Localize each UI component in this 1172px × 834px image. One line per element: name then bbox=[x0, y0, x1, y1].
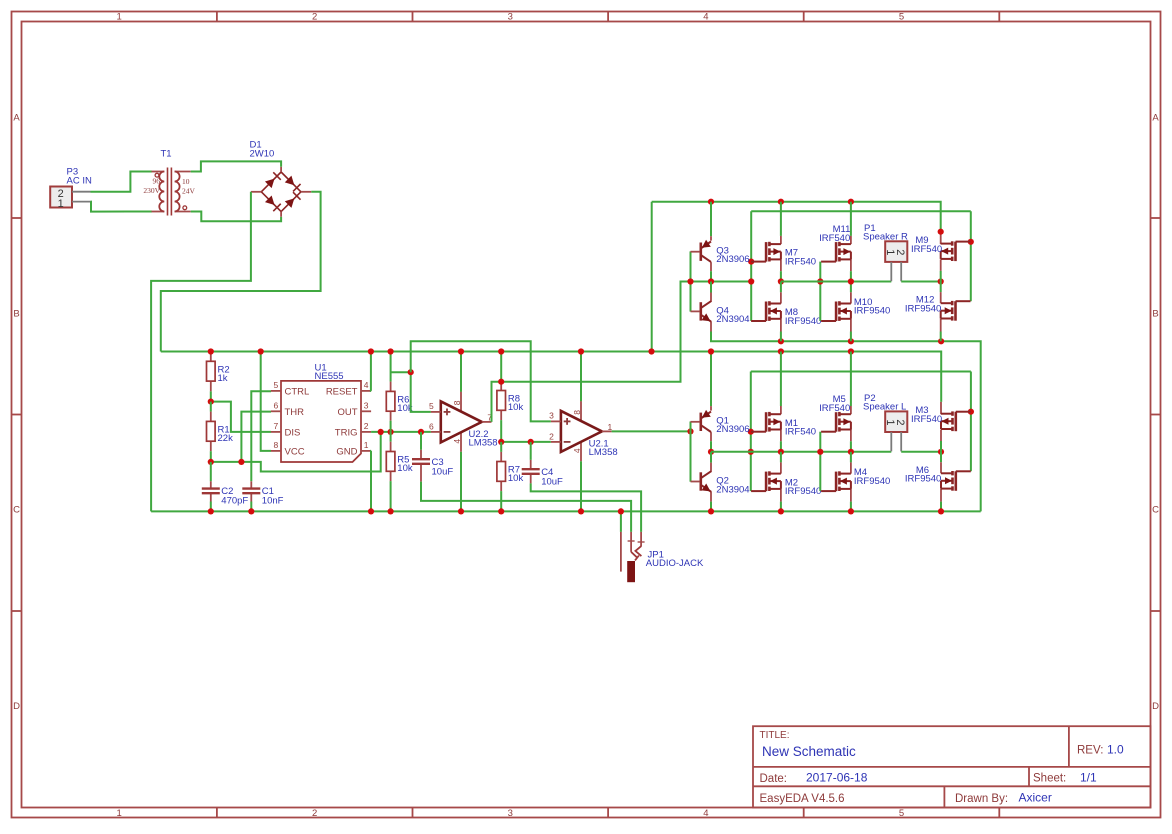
junction Q1 collector bbox=[708, 449, 714, 455]
svg-text:2: 2 bbox=[312, 12, 317, 23]
capacitor C2 bbox=[202, 486, 249, 507]
svg-text:B: B bbox=[1152, 309, 1158, 320]
junction Q1 feed on V+ rail bbox=[708, 348, 714, 354]
svg-text:LM358: LM358 bbox=[469, 438, 498, 449]
transistor M4 wires bbox=[850, 452, 852, 463]
svg-text:Date:: Date: bbox=[760, 773, 788, 785]
wire Q3/Q4 base tie bbox=[690, 251, 692, 311]
svg-text:3: 3 bbox=[508, 12, 513, 23]
wire Q1/Q2 base tie bbox=[690, 422, 692, 482]
svg-text:5: 5 bbox=[899, 808, 904, 819]
junction C4 top bbox=[528, 439, 534, 445]
junction Q2 emitter ground bbox=[708, 508, 714, 514]
svg-text:A: A bbox=[13, 113, 20, 124]
transistor M9 wires bbox=[940, 232, 942, 244]
svg-text:THR: THR bbox=[285, 407, 305, 418]
junction TRIG wire bbox=[378, 429, 384, 435]
transistor M11 wires bbox=[850, 202, 852, 236]
connector P3 (AC IN) bbox=[50, 167, 92, 211]
junction M3 gate bbox=[968, 409, 974, 415]
svg-text:IRF9540: IRF9540 bbox=[905, 304, 941, 315]
wire ground to JP1 sleeve bbox=[620, 511, 622, 532]
capacitor C2 pins bbox=[210, 462, 212, 481]
junction VCC on V+ rail bbox=[258, 348, 264, 354]
junction R1 bottom bbox=[208, 459, 214, 465]
svg-text:2017-06-18: 2017-06-18 bbox=[806, 771, 868, 785]
wire U2.1 out to Q1/Q2 bases bbox=[612, 430, 691, 432]
svg-text:2W10: 2W10 bbox=[250, 149, 275, 160]
svg-text:24V: 24V bbox=[182, 186, 196, 195]
svg-text:1: 1 bbox=[117, 12, 122, 23]
svg-text:REV:: REV: bbox=[1077, 744, 1103, 756]
svg-text:8: 8 bbox=[452, 400, 462, 405]
junction M7 source bbox=[778, 278, 784, 284]
junction M5 source bbox=[848, 449, 854, 455]
junctions M1/M5 drains on V+ rail bbox=[778, 348, 784, 354]
junction Q3/Q4 bases bbox=[687, 278, 693, 284]
svg-text:GND: GND bbox=[336, 446, 357, 457]
transistor M7 wires bbox=[780, 202, 782, 236]
op-amp U2.2 power wires bbox=[460, 352, 462, 392]
wire D1 negative to ground rail bbox=[151, 192, 251, 512]
svg-text:4: 4 bbox=[703, 12, 708, 23]
transistor Q1 collector wire bbox=[710, 432, 712, 441]
junction M9 source node bbox=[938, 278, 944, 284]
svg-text:2: 2 bbox=[894, 249, 906, 255]
junction C1 ground bbox=[248, 508, 254, 514]
lower gate bus bbox=[751, 371, 971, 373]
junction M3 source node bbox=[938, 449, 944, 455]
junction U2.2 V- bbox=[458, 508, 464, 514]
svg-text:IRF540: IRF540 bbox=[819, 403, 850, 414]
svg-text:IRF540: IRF540 bbox=[785, 257, 816, 268]
svg-text:7: 7 bbox=[274, 421, 279, 431]
svg-text:OUT: OUT bbox=[337, 407, 357, 418]
svg-text:22k: 22k bbox=[218, 433, 234, 444]
svg-text:D: D bbox=[1152, 701, 1159, 712]
svg-text:IRF540: IRF540 bbox=[785, 427, 816, 438]
svg-text:2N3906: 2N3906 bbox=[716, 254, 749, 265]
wire R2/R1 node to U1 DIS bbox=[211, 402, 271, 432]
svg-text:1k: 1k bbox=[218, 373, 228, 384]
connector JP1 (AUDIO-JACK) bbox=[621, 532, 704, 582]
wire R1 bottom to TRIG node bbox=[211, 432, 381, 472]
capacitor C1 bbox=[242, 486, 283, 507]
svg-text:8: 8 bbox=[274, 440, 279, 450]
transistor Q4 (2N3904) bbox=[691, 301, 750, 325]
op-amp U2.2 bbox=[429, 392, 498, 452]
resistor R2 pins bbox=[210, 391, 212, 401]
resistor R2 bbox=[207, 361, 230, 384]
junction Q3 collector bbox=[708, 278, 714, 284]
svg-text:10uF: 10uF bbox=[541, 476, 563, 487]
svg-text:4: 4 bbox=[452, 439, 462, 444]
wire U2.2 out to R8 node and lower driver riser bbox=[492, 282, 751, 422]
wire speaker P1 pin2 to M9 bbox=[901, 281, 941, 283]
junction R8 top on V+ rail bbox=[498, 348, 504, 354]
junction U1 GND bbox=[368, 508, 374, 514]
junction M11/M10 gates bbox=[817, 278, 823, 284]
ground rail bbox=[151, 510, 981, 512]
resistor R6 bbox=[386, 391, 413, 414]
svg-text:Axicer: Axicer bbox=[1019, 791, 1052, 805]
resistor R5 bbox=[386, 452, 413, 475]
svg-text:2N3906: 2N3906 bbox=[716, 424, 749, 435]
junction JP1 sleeve ground bbox=[618, 508, 624, 514]
svg-text:Drawn By:: Drawn By: bbox=[955, 793, 1008, 805]
junction R2/R1 node bbox=[208, 399, 214, 405]
wire C4 to JP1 ring bbox=[531, 483, 641, 532]
transistor Q2 collector wire bbox=[710, 452, 712, 463]
junction RESET on V+ rail bbox=[368, 348, 374, 354]
transistor Q3 (2N3906) bbox=[691, 240, 750, 265]
wire M5/M4 gates bbox=[819, 432, 821, 491]
junction M7 gate bbox=[748, 259, 754, 265]
svg-text:IRF540: IRF540 bbox=[911, 244, 942, 255]
svg-text:IRF9540: IRF9540 bbox=[905, 474, 941, 485]
junction M1 source bbox=[778, 449, 784, 455]
junction M9 gate bbox=[968, 239, 974, 245]
svg-text:96: 96 bbox=[153, 177, 161, 186]
wire U2.1 -in node bbox=[501, 441, 551, 443]
junction R5 ground bbox=[388, 508, 394, 514]
connector P1 (Speaker R) bbox=[863, 223, 908, 281]
svg-text:A: A bbox=[1152, 113, 1159, 124]
junction R2 top on V+ rail bbox=[208, 348, 214, 354]
svg-text:4: 4 bbox=[364, 380, 369, 390]
transistor M1 (IRF540) bbox=[751, 412, 816, 438]
junction node A bbox=[408, 369, 414, 375]
junction C2 ground bbox=[208, 508, 214, 514]
junction gate bus / lower driver node bbox=[748, 449, 754, 455]
svg-text:1: 1 bbox=[58, 198, 64, 210]
svg-text:5: 5 bbox=[429, 401, 434, 411]
transistor M8 (IRF9540) bbox=[751, 301, 821, 327]
svg-text:6: 6 bbox=[429, 421, 434, 431]
transistor M1 wires bbox=[780, 352, 782, 407]
resistor R8 bbox=[497, 391, 524, 414]
wire THR riser bbox=[241, 412, 271, 462]
svg-text:5: 5 bbox=[274, 380, 279, 390]
svg-text:10: 10 bbox=[182, 177, 190, 186]
junction R6 top on V+ rail bbox=[388, 348, 394, 354]
transistor M9 (IRF540) bbox=[911, 235, 971, 261]
upper gate bus bbox=[751, 210, 971, 212]
junction M2 source ground bbox=[778, 508, 784, 514]
svg-text:B: B bbox=[13, 309, 19, 320]
resistor R5 pins bbox=[390, 432, 392, 442]
svg-text:2N3904: 2N3904 bbox=[716, 314, 749, 325]
junction R8/R7 node bbox=[498, 439, 504, 445]
svg-text:RESET: RESET bbox=[326, 386, 358, 397]
svg-text:NE555: NE555 bbox=[315, 371, 344, 382]
transistor M3 (IRF540) bbox=[911, 405, 971, 431]
transistor Q3 collector wire bbox=[710, 262, 712, 271]
svg-text:3: 3 bbox=[549, 410, 554, 420]
transistor M10 (IRF9540) bbox=[821, 297, 890, 321]
transistor Q3 emitter wire bbox=[710, 202, 712, 237]
svg-text:4: 4 bbox=[572, 448, 582, 453]
svg-text:TITLE:: TITLE: bbox=[760, 730, 790, 741]
wire T1 secondary bottom to D1 AC- bbox=[191, 212, 281, 222]
wire CTRL to C1 bbox=[251, 391, 271, 481]
svg-text:1: 1 bbox=[364, 440, 369, 450]
svg-text:1/1: 1/1 bbox=[1080, 770, 1097, 784]
bridge rectifier D1 (2W10) bbox=[250, 139, 312, 216]
svg-text:D: D bbox=[13, 701, 20, 712]
transistor Q4 emitter wire bbox=[710, 321, 712, 331]
wire V+ feed to Q1 bbox=[710, 352, 712, 407]
svg-text:5: 5 bbox=[899, 12, 904, 23]
svg-text:C: C bbox=[1152, 505, 1159, 516]
wire T1 secondary top to D1 AC+ bbox=[191, 161, 281, 171]
svg-text:AUDIO-JACK: AUDIO-JACK bbox=[646, 558, 704, 569]
wire TRIG node bbox=[371, 431, 431, 433]
transistor M12 (IRF9540) bbox=[905, 295, 971, 321]
svg-text:3: 3 bbox=[364, 400, 369, 410]
resistor R6 pins bbox=[390, 352, 392, 382]
op-amp U2.1 power wires bbox=[580, 352, 582, 402]
junction M9 drain bbox=[938, 229, 944, 235]
capacitor C4 bbox=[522, 467, 563, 488]
svg-text:IRF540: IRF540 bbox=[911, 414, 942, 425]
connector P2 (Speaker L) bbox=[863, 393, 907, 451]
transistor Q2 (2N3904) bbox=[691, 471, 750, 495]
junction U2.1 V+ bbox=[578, 348, 584, 354]
svg-text:10uF: 10uF bbox=[432, 466, 454, 477]
transistor M2 (IRF9540) bbox=[751, 471, 821, 497]
transistor Q4 collector wire bbox=[710, 282, 712, 293]
wire upper rail feed bbox=[651, 202, 653, 352]
svg-text:C: C bbox=[13, 505, 20, 516]
svg-text:4: 4 bbox=[703, 808, 708, 819]
node wire R6 tap to U2.2 +in bbox=[391, 372, 431, 412]
wire D1 positive to V+ rail bbox=[161, 192, 321, 352]
svg-text:2: 2 bbox=[312, 808, 317, 819]
transistor M5 wires bbox=[850, 352, 852, 407]
transistor Q1 emitter wire bbox=[710, 406, 712, 411]
transformer T1 bbox=[143, 149, 195, 216]
capacitor C4 pins bbox=[530, 442, 532, 460]
transistor M11 (IRF540) bbox=[819, 224, 851, 262]
junction R8 tap bbox=[498, 379, 504, 385]
junctions on upper V- line bbox=[778, 338, 784, 344]
transistor M5 (IRF540) bbox=[819, 394, 851, 432]
svg-text:10k: 10k bbox=[397, 463, 413, 474]
transistor M10 wires bbox=[850, 282, 852, 293]
V+ rail bbox=[161, 352, 941, 402]
junction M4 source ground bbox=[848, 508, 854, 514]
wire M11/M10 gates bbox=[819, 262, 821, 321]
transistor M12 wires bbox=[940, 282, 942, 293]
svg-text:TRIG: TRIG bbox=[335, 427, 358, 438]
transistor M6 wires bbox=[940, 452, 942, 462]
svg-text:DIS: DIS bbox=[285, 427, 301, 438]
resistor R1 bbox=[207, 421, 234, 444]
transistor M7 (IRF540) bbox=[751, 242, 816, 268]
title block bbox=[753, 726, 1151, 807]
svg-text:IRF9540: IRF9540 bbox=[785, 486, 821, 497]
transistor M4 (IRF9540) bbox=[821, 467, 890, 491]
lower driver node wire bbox=[711, 451, 891, 453]
junction THR riser bbox=[238, 459, 244, 465]
svg-text:EasyEDA V4.5.6: EasyEDA V4.5.6 bbox=[760, 793, 845, 805]
resistor R7 pins bbox=[500, 442, 502, 452]
svg-text:8: 8 bbox=[572, 410, 582, 415]
transistor Q1 (2N3906) bbox=[691, 410, 750, 435]
junctions on upper V+ rail bbox=[708, 199, 714, 205]
svg-text:10nF: 10nF bbox=[262, 496, 284, 507]
junction M11 source bbox=[848, 278, 854, 284]
svg-text:2: 2 bbox=[894, 419, 906, 425]
capacitor C3 pins bbox=[420, 432, 422, 450]
svg-text:1: 1 bbox=[608, 422, 613, 432]
svg-text:6: 6 bbox=[274, 400, 279, 410]
upper output rail to speaker bbox=[781, 281, 891, 283]
junction R7 ground bbox=[498, 508, 504, 514]
upper V+ rail bbox=[652, 202, 941, 232]
junction U2.1 V- bbox=[578, 508, 584, 514]
svg-text:470pF: 470pF bbox=[221, 496, 248, 507]
junction M1 gate bbox=[748, 429, 754, 435]
svg-text:Sheet:: Sheet: bbox=[1033, 773, 1066, 785]
resistor R1 pins bbox=[210, 402, 212, 412]
svg-text:IRF9540: IRF9540 bbox=[854, 306, 890, 317]
svg-text:3: 3 bbox=[508, 808, 513, 819]
junction M5/M4 gates bbox=[817, 449, 823, 455]
svg-text:IRF9540: IRF9540 bbox=[854, 476, 890, 487]
junction upper rail feed bbox=[648, 348, 654, 354]
svg-text:CTRL: CTRL bbox=[285, 386, 310, 397]
transistor M3 wires bbox=[940, 402, 942, 414]
svg-text:IRF9540: IRF9540 bbox=[785, 316, 821, 327]
resistor R8 pins bbox=[500, 352, 502, 382]
svg-text:IRF540: IRF540 bbox=[819, 233, 850, 244]
resistor R7 bbox=[497, 462, 524, 485]
svg-text:Speaker L: Speaker L bbox=[863, 401, 906, 412]
transistor M6 (IRF9540) bbox=[905, 465, 971, 491]
svg-text:Speaker R: Speaker R bbox=[863, 231, 908, 242]
wire jumper to U2.1 +in bbox=[411, 341, 551, 421]
wire C3 to JP1 tip bbox=[421, 482, 631, 532]
junction Q1/Q2 base node bbox=[687, 428, 693, 434]
svg-text:LM358: LM358 bbox=[589, 447, 618, 458]
transistor Q2 emitter wire bbox=[710, 491, 712, 501]
svg-text:VCC: VCC bbox=[285, 446, 305, 457]
svg-text:230V: 230V bbox=[143, 186, 160, 195]
IC U1 (NE555) bbox=[271, 362, 371, 462]
wire P3 pin1 to T1 primary bottom bbox=[91, 202, 152, 212]
op-amp U2.1 bbox=[549, 401, 618, 461]
svg-text:10k: 10k bbox=[508, 402, 524, 413]
wire RESET to V+ rail bbox=[370, 352, 372, 391]
capacitor C3 bbox=[412, 457, 453, 478]
svg-text:T1: T1 bbox=[161, 149, 172, 160]
wire speaker P2 pin2 to M3 bbox=[901, 451, 941, 453]
wire P3 pin2 to T1 primary top bbox=[91, 172, 152, 192]
svg-text:New Schematic: New Schematic bbox=[762, 744, 856, 759]
junction M6 source ground bbox=[938, 508, 944, 514]
svg-text:10k: 10k bbox=[508, 473, 524, 484]
wire U1 GND to ground rail bbox=[370, 451, 372, 512]
capacitor C1 pins bbox=[250, 481, 252, 488]
junction U2.2 V+ bbox=[458, 348, 464, 354]
svg-text:2: 2 bbox=[549, 431, 554, 441]
junction gate bus / driver node bbox=[748, 278, 754, 284]
transistor M2 wires bbox=[780, 452, 782, 463]
wire VCC to V+ rail bbox=[261, 352, 271, 451]
svg-text:2: 2 bbox=[364, 421, 369, 431]
transistor M8 wires bbox=[780, 282, 782, 293]
svg-text:1: 1 bbox=[117, 808, 122, 819]
svg-text:2N3904: 2N3904 bbox=[716, 484, 749, 495]
svg-text:1.0: 1.0 bbox=[1107, 742, 1124, 756]
svg-text:AC IN: AC IN bbox=[67, 175, 92, 186]
